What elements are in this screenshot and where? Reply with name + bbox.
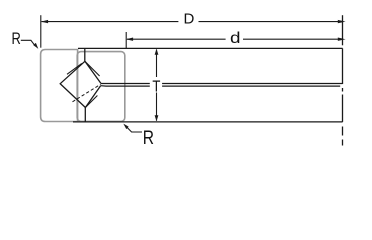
raceway groove line upper-right [85,61,100,76]
svg-text:D: D [184,10,195,27]
T arrowheads [155,49,159,55]
ring split seam double lines (middle) [101,84,343,87]
crossed roller (diamond) [60,61,101,107]
R leader top-left [21,40,35,46]
seam vertical top [84,48,86,61]
svg-text:R: R [143,126,154,148]
shaft top surface line (d surface) [78,47,343,49]
R leader bottom-right [126,126,142,132]
D arrowheads [41,20,48,23]
dimension D [41,15,342,48]
svg-text:d: d [230,29,241,47]
svg-text:R: R [12,29,21,48]
right edge of rings / break line [342,15,344,145]
seam vertical bottom [84,108,86,122]
dimension d [126,32,342,48]
raceway groove line upper-left [67,63,82,74]
shaft bottom surface line [73,121,343,123]
extension line left (D) [40,15,42,48]
extension line left (d) [125,32,127,48]
raceway groove line lower-right [85,96,97,108]
d arrowheads [126,38,133,41]
svg-text:T: T [152,78,160,95]
dimension T [156,50,158,121]
bearing inner-ring section (gray rounded block right) [77,52,125,122]
bearing outer-ring section (gray rounded block left) [41,50,125,122]
hidden roller axis (dashed diagonal) [73,84,101,102]
